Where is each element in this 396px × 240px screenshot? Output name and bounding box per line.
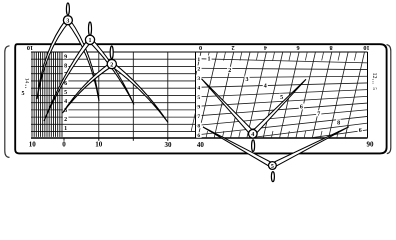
svg-text:10: 10 bbox=[27, 44, 33, 51]
svg-text:8: 8 bbox=[197, 124, 200, 130]
svg-text:90: 90 bbox=[367, 140, 375, 148]
svg-text:8: 8 bbox=[64, 63, 67, 69]
svg-text:10: 10 bbox=[95, 141, 103, 149]
svg-text:0: 0 bbox=[199, 44, 202, 51]
svg-text:2: 2 bbox=[228, 68, 231, 74]
svg-text:6: 6 bbox=[197, 133, 200, 139]
svg-text:6: 6 bbox=[64, 81, 67, 87]
svg-text:3: 3 bbox=[246, 77, 249, 83]
svg-text:9: 9 bbox=[64, 54, 67, 60]
svg-text:7: 7 bbox=[317, 112, 320, 118]
svg-text:4: 4 bbox=[264, 83, 267, 89]
svg-text:3: 3 bbox=[66, 19, 69, 25]
svg-text:2: 2 bbox=[231, 44, 234, 51]
svg-text:5: 5 bbox=[271, 164, 274, 170]
svg-text:5: 5 bbox=[280, 95, 283, 101]
svg-text:5: 5 bbox=[197, 95, 200, 101]
svg-text:4: 4 bbox=[251, 132, 254, 138]
svg-text:1: 1 bbox=[197, 57, 200, 63]
svg-text:6: 6 bbox=[359, 128, 362, 134]
svg-text:8: 8 bbox=[329, 44, 332, 51]
svg-text:4: 4 bbox=[197, 86, 200, 92]
svg-text:8: 8 bbox=[337, 121, 340, 127]
svg-text:9: 9 bbox=[197, 105, 200, 111]
svg-text:6: 6 bbox=[300, 105, 303, 111]
svg-text:5: 5 bbox=[371, 87, 377, 90]
svg-text:12: 12 bbox=[371, 73, 377, 79]
svg-text:7: 7 bbox=[197, 114, 200, 120]
svg-text:2: 2 bbox=[110, 63, 113, 69]
svg-text:0: 0 bbox=[62, 141, 66, 149]
svg-text:30: 30 bbox=[165, 141, 173, 149]
svg-text:1: 1 bbox=[89, 38, 92, 44]
svg-text:5: 5 bbox=[22, 91, 25, 97]
svg-text:1: 1 bbox=[208, 57, 211, 63]
svg-text:10: 10 bbox=[363, 44, 369, 51]
svg-text:6: 6 bbox=[296, 44, 299, 51]
svg-text:5: 5 bbox=[64, 90, 67, 96]
svg-text:10: 10 bbox=[29, 141, 37, 149]
svg-text:2: 2 bbox=[64, 117, 67, 123]
svg-text:3: 3 bbox=[197, 76, 200, 82]
svg-text:2: 2 bbox=[197, 66, 200, 72]
svg-text:40: 40 bbox=[197, 141, 205, 149]
svg-text:4: 4 bbox=[64, 99, 67, 105]
svg-text:1: 1 bbox=[64, 126, 67, 132]
svg-text:14: 14 bbox=[24, 78, 30, 84]
